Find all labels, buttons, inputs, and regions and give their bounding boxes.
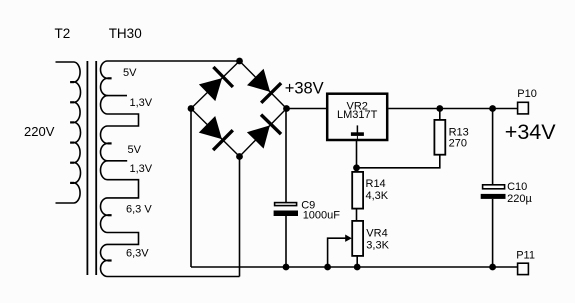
svg-text:+38V: +38V xyxy=(285,80,324,98)
svg-text:VR4: VR4 xyxy=(366,228,387,240)
resistor R14 xyxy=(352,172,389,209)
VR4 wiper arrow wire to ground rail xyxy=(328,235,352,268)
secondary winding section 1,3V second with jog wire xyxy=(101,161,139,198)
diode D3 of bridge xyxy=(191,109,240,157)
potentiometer VR4 xyxy=(352,221,389,256)
svg-text:1,3V: 1,3V xyxy=(130,163,153,175)
secondary winding section 5V second xyxy=(101,126,128,161)
label 5V xyxy=(123,67,137,79)
svg-text:6,3V: 6,3V xyxy=(126,247,149,259)
secondary winding junction ticks xyxy=(108,78,112,260)
secondary winding section 6,3V with jog wire xyxy=(101,198,139,245)
svg-text:C10: C10 xyxy=(507,181,527,193)
transformer T2 label xyxy=(55,26,71,41)
terminal P11 xyxy=(516,250,535,275)
transformer T2 primary winding xyxy=(56,62,81,203)
ground rail wire xyxy=(191,266,517,268)
terminal P10 xyxy=(517,88,537,114)
capacitor C9 xyxy=(274,200,341,222)
svg-text:T2: T2 xyxy=(55,26,71,41)
svg-text:TH30: TH30 xyxy=(109,26,142,41)
diode D1 of bridge xyxy=(191,61,240,109)
wire VR2 output to P10 xyxy=(389,108,518,110)
svg-text:270: 270 xyxy=(449,138,467,150)
transformer TH30 label xyxy=(109,26,142,41)
svg-text:5V: 5V xyxy=(123,67,137,79)
wire bridge bottom node down to transformer bottom lead xyxy=(239,157,241,277)
svg-text:1000uF: 1000uF xyxy=(303,210,341,222)
wire R13 top xyxy=(439,109,441,120)
svg-text:4,3K: 4,3K xyxy=(366,190,389,202)
svg-text:6,3 V: 6,3 V xyxy=(126,203,152,215)
label 5V second xyxy=(128,144,142,156)
label 1,3V xyxy=(130,97,153,109)
wire R13 bottom to ADJ node xyxy=(357,155,440,168)
wire VR4 bottom to ground rail xyxy=(356,256,358,267)
wire bridge left node down to ground rail xyxy=(190,109,192,268)
wire VR2 ADJ pin down to node xyxy=(356,141,358,171)
svg-text:220V: 220V xyxy=(24,124,55,139)
svg-text:P11: P11 xyxy=(516,250,535,262)
svg-text:3,3K: 3,3K xyxy=(366,239,389,251)
op-amp style box regulator VR2 LM317T xyxy=(327,94,387,140)
svg-text:+34V: +34V xyxy=(505,120,556,144)
label 1,3V second xyxy=(130,163,153,175)
svg-text:P10: P10 xyxy=(517,88,537,100)
capacitor C10 xyxy=(481,181,533,205)
transformer core xyxy=(87,61,96,275)
diode D2 of bridge xyxy=(240,61,287,109)
secondary winding section 6,3V second with bottom lead wire to bridge xyxy=(100,244,239,276)
label 220V primary voltage xyxy=(24,124,55,139)
svg-text:1,3V: 1,3V xyxy=(130,97,153,109)
secondary winding section 1,3V with jog wire xyxy=(101,96,139,126)
wire C9 bottom to ground rail xyxy=(285,216,287,267)
wire +38V rail from bridge right node to VR2 input xyxy=(287,108,327,110)
wire C10 top from output rail xyxy=(492,109,494,185)
label 6,3 V xyxy=(126,203,152,215)
wire C9 top from bridge right node xyxy=(285,109,287,203)
svg-text:LM317T: LM317T xyxy=(337,109,378,121)
resistor R13 xyxy=(434,120,468,155)
wire C10 bottom to ground rail xyxy=(492,199,494,267)
wire R14 bottom to VR4 top xyxy=(356,209,358,220)
label +38V xyxy=(285,80,324,98)
svg-text:220µ: 220µ xyxy=(507,193,532,205)
svg-text:5V: 5V xyxy=(128,144,142,156)
secondary winding section 5V with top lead wire to bridge xyxy=(101,61,240,96)
svg-text:R14: R14 xyxy=(366,178,386,190)
label +34V xyxy=(505,120,556,144)
label 6,3V second xyxy=(126,247,149,259)
diode D4 of bridge xyxy=(240,109,287,157)
